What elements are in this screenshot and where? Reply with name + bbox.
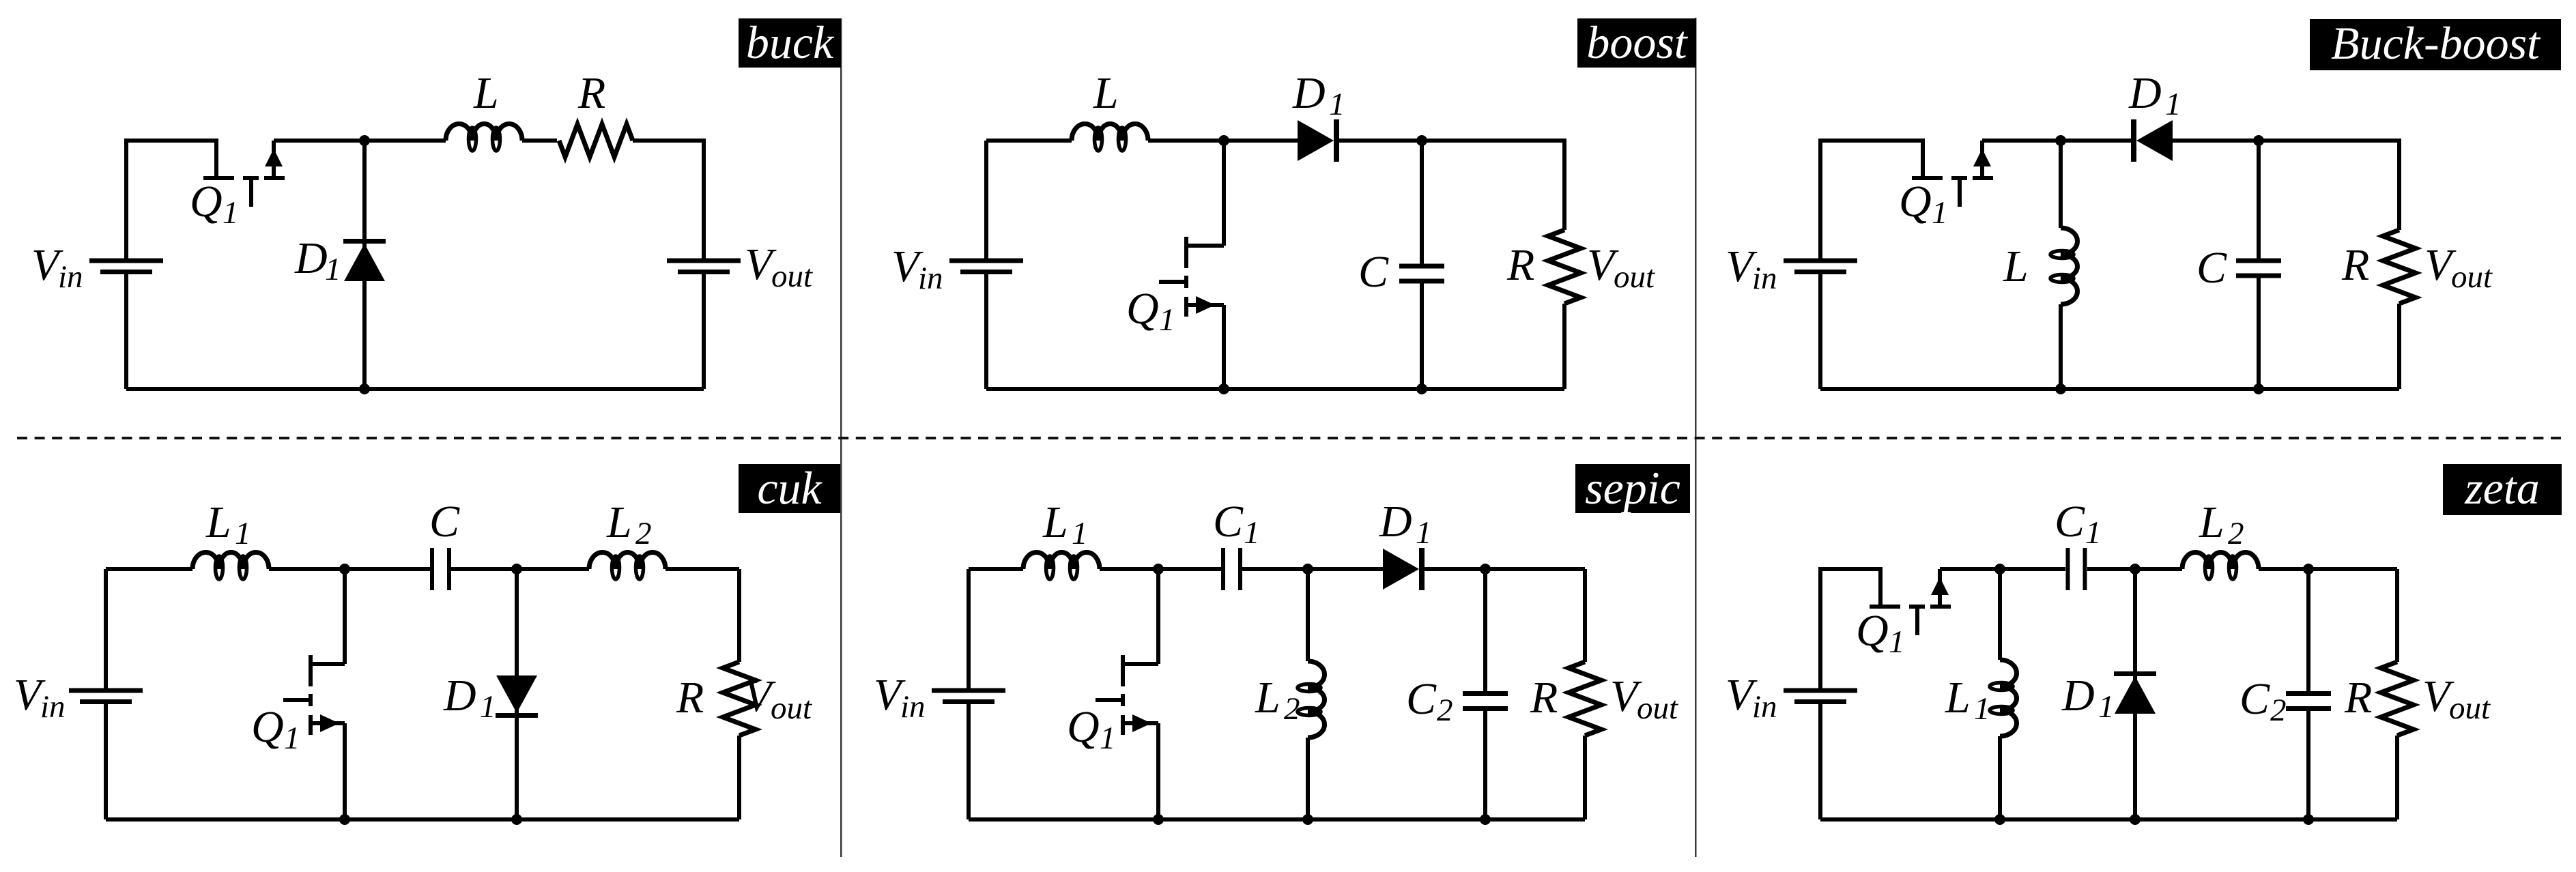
svg-text:2: 2 <box>1284 691 1300 727</box>
svg-text:L: L <box>2199 497 2224 547</box>
svg-text:1: 1 <box>325 252 341 287</box>
svg-text:in: in <box>900 689 926 725</box>
svg-text:R: R <box>577 68 605 118</box>
svg-text:in: in <box>58 259 83 295</box>
svg-text:Buck-boost: Buck-boost <box>2331 17 2541 69</box>
svg-text:C: C <box>429 497 460 547</box>
svg-text:Q: Q <box>1067 702 1100 752</box>
svg-text:out: out <box>2451 259 2493 295</box>
svg-text:1: 1 <box>480 689 496 725</box>
svg-text:in: in <box>1752 261 1777 296</box>
svg-text:R: R <box>676 673 704 723</box>
svg-text:zeta: zeta <box>2464 462 2540 514</box>
svg-text:in: in <box>918 261 943 296</box>
svg-text:Q: Q <box>251 702 284 752</box>
svg-text:sepic: sepic <box>1585 462 1680 514</box>
svg-text:out: out <box>2449 691 2491 726</box>
svg-text:2: 2 <box>2270 693 2287 728</box>
svg-text:R: R <box>1506 240 1534 290</box>
svg-text:C: C <box>1358 247 1389 297</box>
svg-text:1: 1 <box>2085 515 2102 551</box>
svg-text:1: 1 <box>1159 302 1175 338</box>
svg-text:1: 1 <box>235 516 251 551</box>
svg-text:R: R <box>2341 240 2369 290</box>
svg-text:L: L <box>1093 68 1119 118</box>
svg-text:L: L <box>1042 497 1068 547</box>
svg-text:C: C <box>1406 674 1437 724</box>
svg-text:1: 1 <box>1416 515 1432 551</box>
svg-text:out: out <box>1637 691 1678 726</box>
svg-text:boost: boost <box>1586 16 1688 68</box>
svg-text:L: L <box>606 497 632 547</box>
svg-text:out: out <box>1614 259 1655 295</box>
svg-text:1: 1 <box>1974 691 1990 727</box>
svg-text:L: L <box>1255 673 1280 723</box>
svg-text:L: L <box>1945 673 1971 723</box>
svg-text:out: out <box>771 691 812 726</box>
svg-text:out: out <box>771 259 813 294</box>
svg-text:Q: Q <box>1899 177 1932 227</box>
svg-text:D: D <box>294 233 328 283</box>
svg-text:Q: Q <box>1856 606 1889 656</box>
svg-text:C: C <box>2239 674 2270 724</box>
svg-text:L: L <box>473 68 499 118</box>
svg-text:L: L <box>2003 242 2029 291</box>
svg-text:D: D <box>1292 68 1326 118</box>
svg-text:Q: Q <box>1126 284 1159 334</box>
svg-text:Q: Q <box>190 177 223 227</box>
svg-text:1: 1 <box>2098 689 2115 725</box>
svg-text:R: R <box>1530 673 1558 723</box>
svg-text:cuk: cuk <box>757 462 822 514</box>
svg-text:D: D <box>2061 671 2095 721</box>
svg-text:R: R <box>2344 673 2372 723</box>
svg-text:in: in <box>40 689 66 725</box>
svg-text:1: 1 <box>284 721 300 756</box>
svg-text:C: C <box>2196 243 2227 293</box>
svg-text:1: 1 <box>223 195 239 231</box>
svg-text:C: C <box>2055 497 2085 547</box>
svg-text:buck: buck <box>746 16 835 68</box>
svg-text:1: 1 <box>1072 516 1088 551</box>
svg-text:1: 1 <box>1100 721 1116 756</box>
svg-text:D: D <box>1379 497 1412 547</box>
svg-text:in: in <box>1752 689 1777 725</box>
svg-text:2: 2 <box>1437 693 1453 728</box>
svg-text:L: L <box>205 497 231 547</box>
svg-text:1: 1 <box>1889 624 1905 660</box>
svg-text:1: 1 <box>1329 87 1345 122</box>
svg-text:2: 2 <box>2228 516 2244 551</box>
svg-text:D: D <box>443 671 476 721</box>
svg-text:1: 1 <box>1244 515 1260 551</box>
svg-text:D: D <box>2128 68 2162 118</box>
svg-text:C: C <box>1213 497 1244 547</box>
svg-text:1: 1 <box>1932 195 1948 231</box>
svg-text:2: 2 <box>635 516 652 551</box>
svg-text:1: 1 <box>2165 87 2181 122</box>
